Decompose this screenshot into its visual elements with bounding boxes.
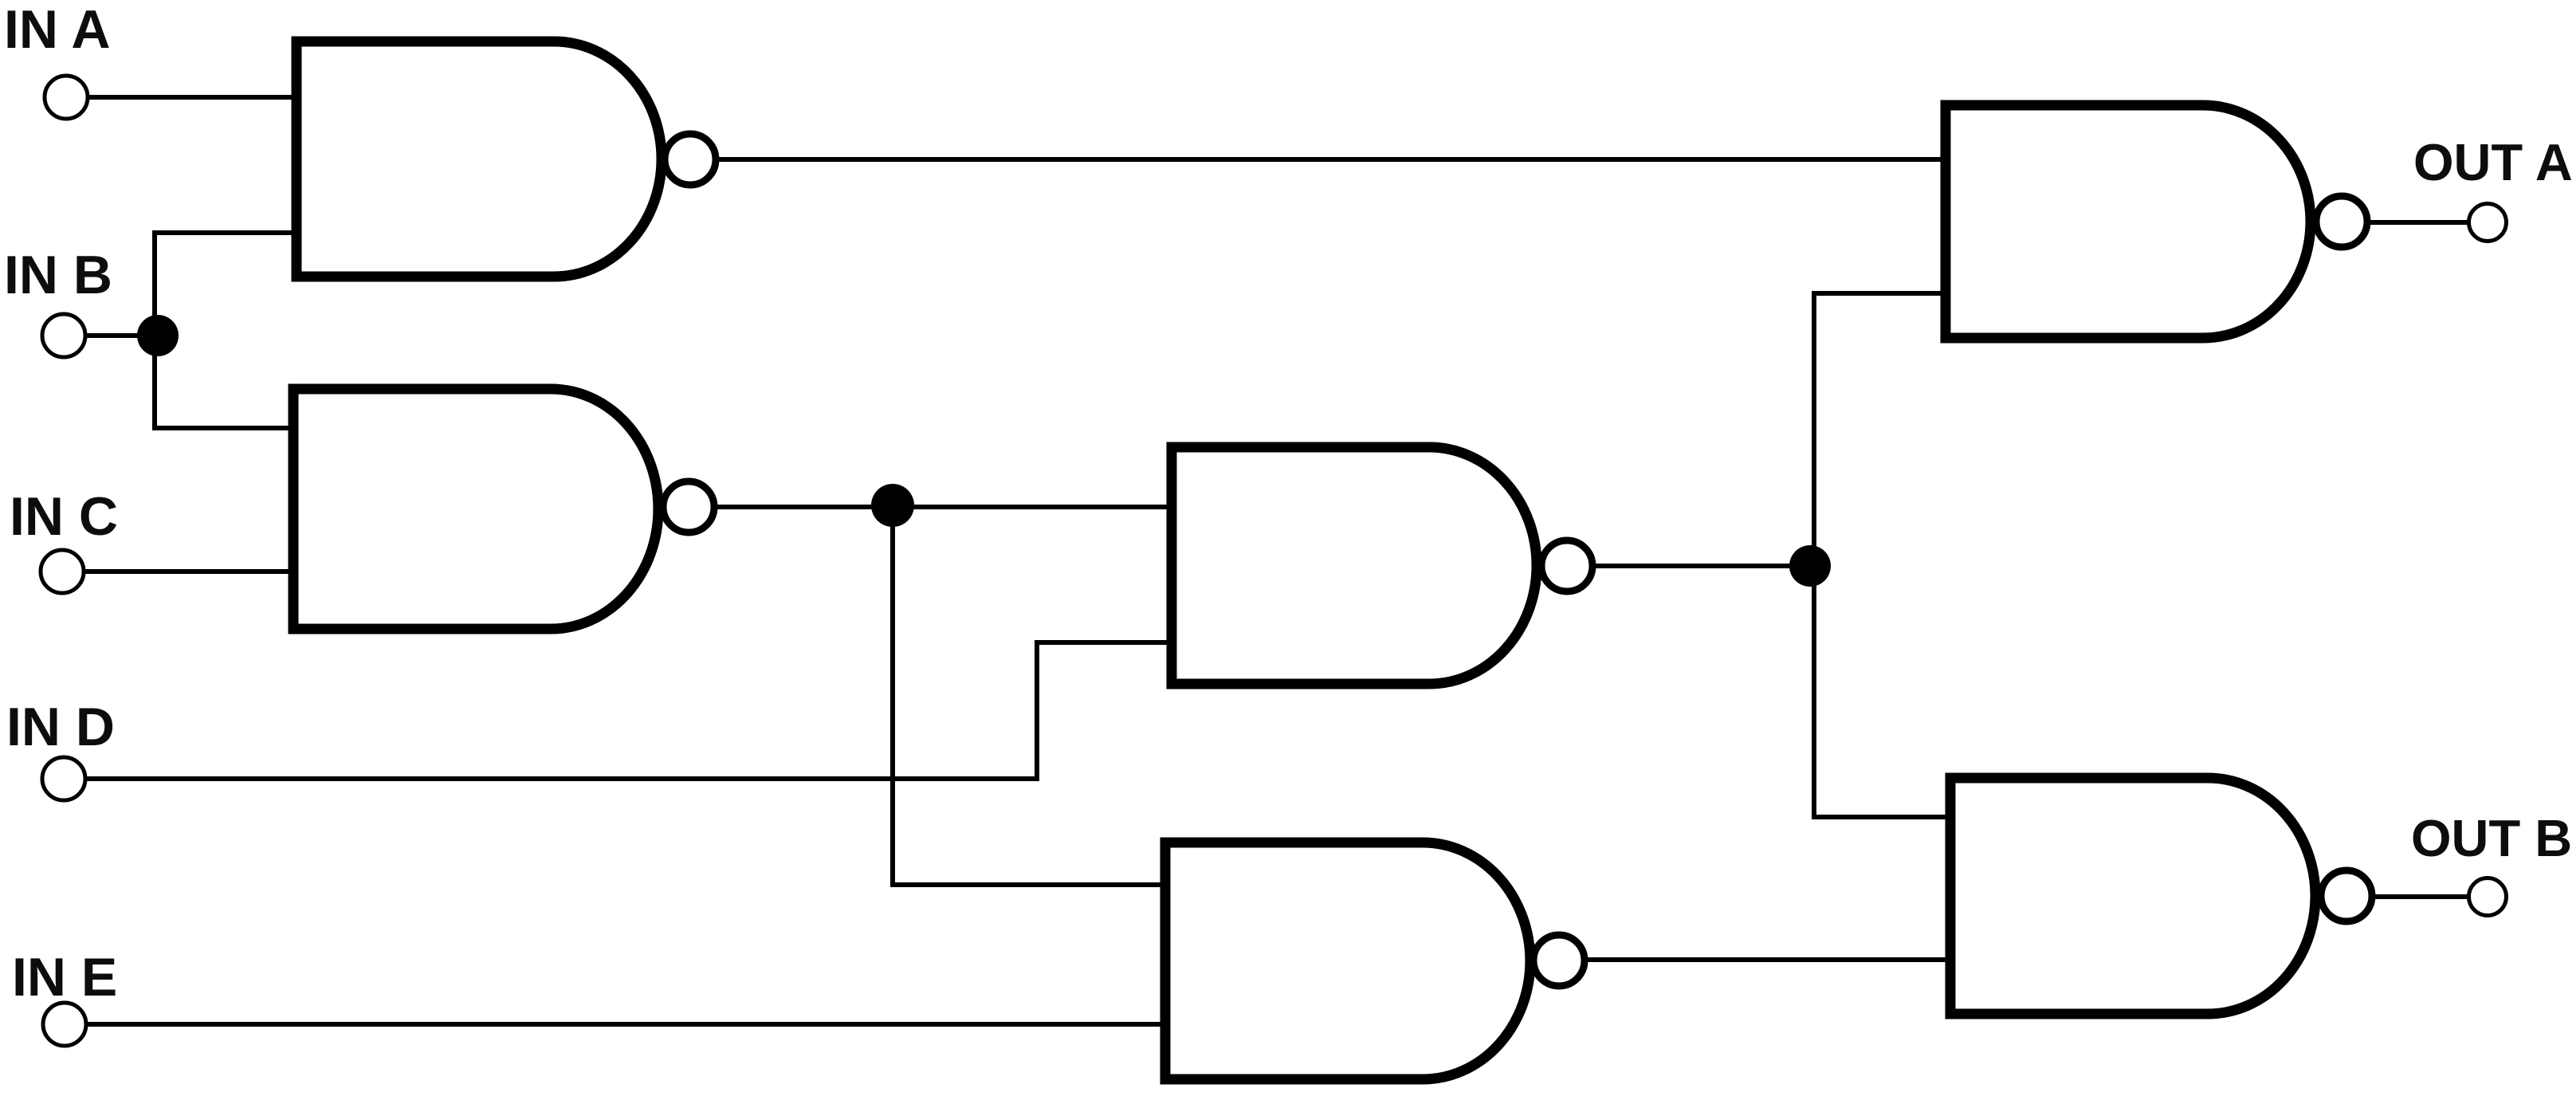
- wire node B vertical: [152, 233, 157, 428]
- wire IN E to U5 input B: [86, 1022, 1165, 1027]
- terminal circle OUT B: [2469, 878, 2507, 916]
- wire U6 output lead: [2368, 894, 2469, 899]
- NAND gate U5 body: [1165, 843, 1530, 1079]
- wire node B to U1 input B: [155, 230, 296, 235]
- wire IN D horizontal: [85, 776, 1037, 781]
- NAND gate U4 body: [1946, 105, 2311, 338]
- wire IN A to U1 input A: [88, 95, 296, 100]
- svg-text:IN D: IN D: [6, 697, 115, 757]
- wire IN D to U3 input B: [1037, 640, 1172, 645]
- terminal circle IN A: [45, 76, 88, 119]
- inversion bubble U3: [1541, 540, 1592, 591]
- junction node N2 dot: [871, 484, 914, 527]
- junction node N3 dot: [1789, 545, 1831, 587]
- inversion bubble U1: [665, 134, 716, 185]
- inversion bubble U6: [2321, 870, 2372, 921]
- terminal circle IN E: [43, 1003, 86, 1046]
- wire IN D vertical riser: [1035, 642, 1039, 779]
- svg-text:IN B: IN B: [4, 245, 112, 305]
- wire U4 output lead: [2363, 220, 2469, 225]
- wire U1 output to U4 input A (net N1): [714, 157, 1946, 162]
- wire node N3 to U6 input A: [1814, 815, 1950, 819]
- wire IN B lead to node B: [85, 333, 158, 338]
- wire IN C to U2 input B: [84, 569, 293, 574]
- wire node N3 to U4 input B: [1814, 291, 1946, 296]
- wire node N2 to U5 input A: [893, 882, 1165, 887]
- inversion bubble U4: [2316, 196, 2367, 247]
- terminal circle IN D: [42, 757, 85, 800]
- NAND gate U1 body: [296, 41, 662, 277]
- NAND gate U3 body: [1172, 447, 1537, 684]
- terminal circle IN C: [41, 550, 84, 593]
- terminal circle OUT A: [2469, 204, 2507, 242]
- NAND gate U6 body: [1950, 778, 2315, 1014]
- svg-text:OUT A: OUT A: [2413, 133, 2573, 191]
- inversion bubble U2: [663, 481, 714, 532]
- wire U2 output to U3 input A (net N2): [711, 505, 1172, 509]
- wire node B to U2 input A: [155, 426, 293, 430]
- inversion bubble U5: [1533, 935, 1584, 986]
- svg-text:IN A: IN A: [4, 0, 110, 60]
- wire node N2 vertical down: [890, 507, 895, 885]
- wire node N3 vertical: [1812, 293, 1816, 817]
- junction node B dot: [137, 315, 179, 356]
- svg-text:IN C: IN C: [10, 486, 118, 547]
- wire U5 output to U6 input B: [1583, 957, 1950, 962]
- svg-text:IN E: IN E: [12, 947, 117, 1008]
- terminal circle IN B: [42, 314, 85, 357]
- svg-text:OUT B: OUT B: [2411, 809, 2572, 867]
- NAND gate U2 body: [293, 389, 658, 629]
- wire U3 output to node N3: [1589, 564, 1810, 568]
